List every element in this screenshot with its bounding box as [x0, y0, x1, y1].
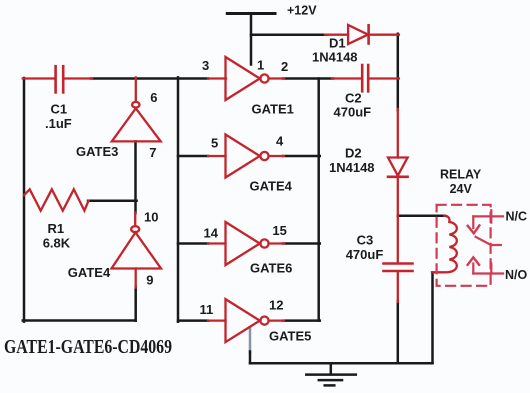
- svg-text:GATE4: GATE4: [68, 265, 111, 280]
- svg-text:GATE5: GATE5: [269, 329, 311, 344]
- svg-text:1: 1: [257, 58, 264, 73]
- svg-text:N/C: N/C: [506, 209, 528, 223]
- svg-text:14: 14: [204, 226, 219, 241]
- svg-text:RELAY: RELAY: [440, 167, 482, 181]
- svg-text:15: 15: [272, 223, 286, 238]
- svg-text:D1: D1: [329, 36, 346, 51]
- svg-text:R1: R1: [48, 221, 65, 236]
- svg-text:470uF: 470uF: [334, 105, 372, 120]
- svg-text:2: 2: [281, 59, 288, 74]
- svg-text:3: 3: [202, 58, 209, 73]
- svg-text:N/O: N/O: [505, 268, 528, 282]
- svg-text:D2: D2: [345, 146, 362, 161]
- svg-text:6.8K: 6.8K: [43, 236, 71, 251]
- svg-text:GATE1: GATE1: [252, 102, 294, 117]
- svg-text:1N4148: 1N4148: [329, 160, 375, 175]
- svg-text:4: 4: [276, 134, 284, 149]
- svg-text:24V: 24V: [450, 182, 473, 196]
- svg-text:GATE1-GATE6-CD4069: GATE1-GATE6-CD4069: [4, 336, 172, 358]
- svg-text:C1: C1: [51, 102, 68, 117]
- svg-text:9: 9: [146, 273, 153, 288]
- svg-text:C3: C3: [357, 233, 374, 248]
- svg-text:.1uF: .1uF: [45, 116, 72, 131]
- svg-text:7: 7: [149, 145, 156, 160]
- svg-text:12: 12: [269, 298, 283, 313]
- svg-text:GATE3: GATE3: [76, 144, 118, 159]
- svg-text:470uF: 470uF: [346, 247, 384, 262]
- svg-text:10: 10: [144, 210, 158, 225]
- svg-text:11: 11: [200, 302, 214, 317]
- svg-text:GATE4: GATE4: [250, 179, 293, 194]
- svg-text:1N4148: 1N4148: [312, 50, 358, 65]
- svg-text:+12V: +12V: [287, 4, 317, 18]
- svg-text:5: 5: [211, 136, 218, 151]
- svg-text:C2: C2: [345, 91, 362, 106]
- svg-text:GATE6: GATE6: [250, 261, 292, 276]
- svg-text:6: 6: [150, 90, 157, 105]
